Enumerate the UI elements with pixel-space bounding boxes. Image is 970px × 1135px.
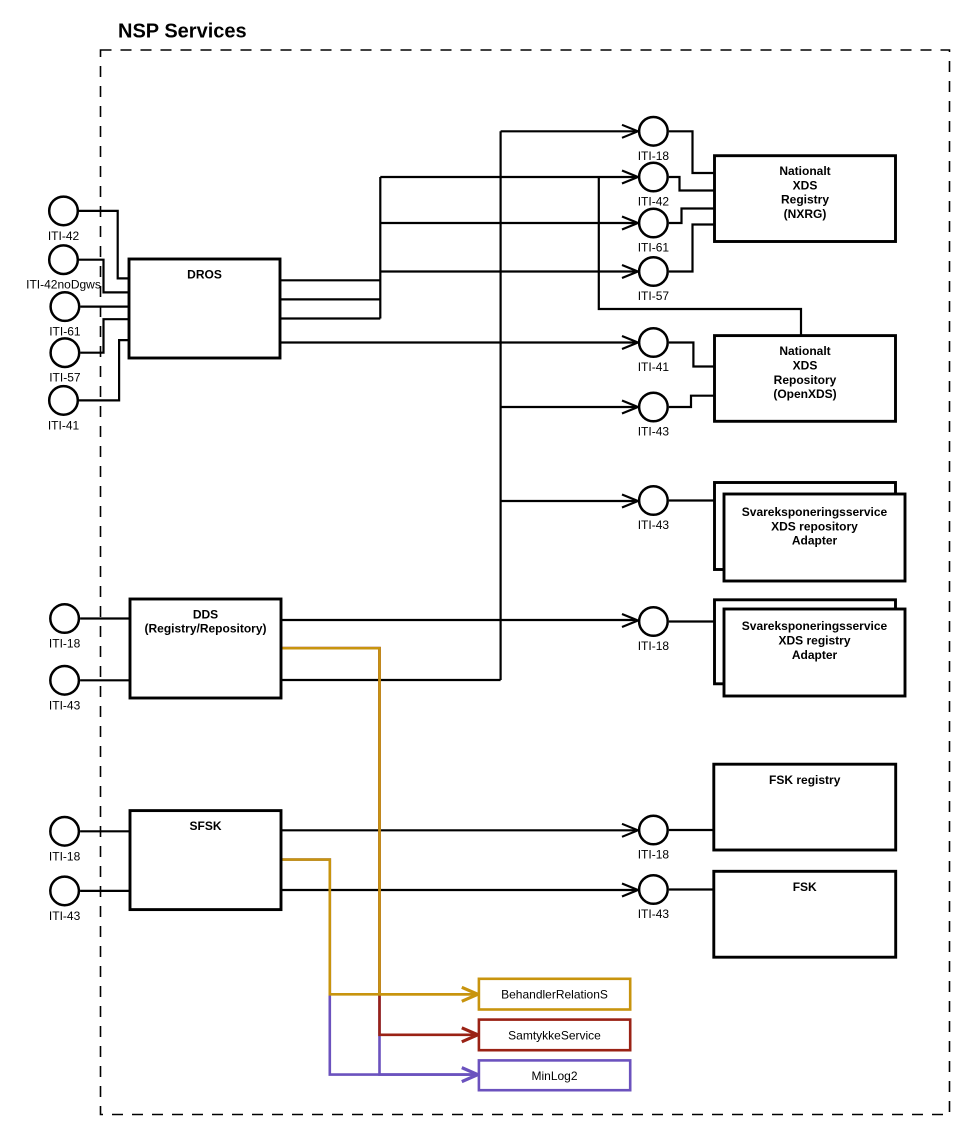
interface circle ITI-41 left <box>48 386 80 432</box>
svg-text:MinLog2: MinLog2 <box>531 1069 577 1083</box>
svg-text:ITI-57: ITI-57 <box>638 289 670 303</box>
arrow into ITI-18 fsk <box>622 824 638 837</box>
interface circle ITI-61 left <box>49 292 81 338</box>
arrow purple into MinLog2 <box>462 1068 478 1082</box>
svg-text:XDS repository: XDS repository <box>771 519 858 533</box>
wire ITI-41 to OpenXDS <box>669 343 715 367</box>
interface circle ITI-43 fsk <box>638 875 670 921</box>
wire bus to ITI-42 right <box>380 176 635 178</box>
wire bus to ITI-61 right <box>380 222 635 224</box>
svg-text:ITI-43: ITI-43 <box>49 909 81 923</box>
svg-text:XDS: XDS <box>793 358 818 372</box>
box BehandlerRelationS <box>479 979 630 1010</box>
arrow into ITI-18 top <box>622 125 638 138</box>
wire bus to ITI-57 right <box>380 270 635 272</box>
wire purple DDS to MinLog2 <box>280 648 477 1074</box>
interface circle ITI-57 left <box>49 338 81 384</box>
svg-text:FSK registry: FSK registry <box>769 773 841 787</box>
wire long vertical DDS bus <box>500 131 502 680</box>
interface circle ITI-43 dds left <box>49 666 81 712</box>
svg-text:Registry: Registry <box>781 193 829 207</box>
interface circle ITI-18 dds left <box>49 604 81 650</box>
svg-text:ITI-61: ITI-61 <box>638 241 670 255</box>
wire gold DDS to BehandlerRelationS <box>280 648 477 994</box>
svg-text:ITI-61: ITI-61 <box>49 325 81 339</box>
box Nationalt XDS Registry (NXRG) <box>715 156 896 242</box>
wire ITI-43 to OpenXDS <box>669 396 715 407</box>
svg-text:ITI-43: ITI-43 <box>638 518 670 532</box>
wire ITI-18 top to NXRG <box>669 131 715 173</box>
svg-text:Svareksponeringsservice: Svareksponeringsservice <box>742 505 888 519</box>
wire purple SFSK to MinLog2 <box>280 860 477 1075</box>
box Svareksponeringsservice XDS registry Adapter (stacked) <box>715 600 906 696</box>
wire ITI-42 left to DROS <box>79 211 129 279</box>
svg-text:ITI-41: ITI-41 <box>638 360 670 374</box>
arrow into ITI-43 fsk <box>622 884 638 897</box>
svg-text:XDS registry: XDS registry <box>778 633 850 647</box>
box Nationalt XDS Repository (OpenXDS) <box>715 336 896 422</box>
wire ITI-57 to NXRG <box>669 225 715 272</box>
wire gold SFSK to BehandlerRelationS <box>280 860 477 995</box>
wire ITI-57 left to DROS <box>80 319 129 353</box>
wire junction ITI-42 line down to OpenXDS top <box>599 177 801 336</box>
arrow into ITI-57 right <box>622 265 638 278</box>
arrow gold into BehandlerRelationS <box>462 987 478 1001</box>
svg-text:ITI-18: ITI-18 <box>49 637 81 651</box>
svg-text:Repository: Repository <box>774 373 837 387</box>
svg-text:FSK: FSK <box>793 880 817 894</box>
wire vertical bottom to DDS <box>281 679 501 681</box>
svg-text:DROS: DROS <box>187 268 222 282</box>
box FSK <box>714 871 896 957</box>
svg-text:Nationalt: Nationalt <box>779 164 830 178</box>
svg-text:SFSK: SFSK <box>189 819 221 833</box>
wire vertical to ITI-18 top <box>501 130 635 132</box>
wire DROS output 3 <box>280 317 380 319</box>
interface circle ITI-42 nxrg <box>638 163 670 209</box>
wire ITI-43 fsk to FSK <box>669 888 714 890</box>
box FSK registry <box>714 764 896 850</box>
arrow into ITI-18 svarekspo <box>622 614 638 627</box>
wire ITI-18 left to SFSK <box>80 830 130 832</box>
svg-text:SamtykkeService: SamtykkeService <box>508 1029 601 1043</box>
interface circle ITI-42noDgws left <box>26 245 101 291</box>
arrow into ITI-42 right <box>622 171 638 184</box>
wire bus vertical from DROS <box>379 177 381 319</box>
svg-text:BehandlerRelationS: BehandlerRelationS <box>501 988 608 1002</box>
wire vertical to ITI-43 svarekspo <box>501 500 635 502</box>
wire ITI-43 left to SFSK <box>80 890 130 892</box>
box DROS <box>129 259 280 358</box>
arrow red into SamtykkeService <box>462 1028 478 1042</box>
interface circle ITI-18 svarekspo reg <box>638 607 670 653</box>
wire ITI-43 left to DDS <box>80 679 130 681</box>
interface circle ITI-43 openxds <box>638 393 670 439</box>
svg-text:Svareksponeringsservice: Svareksponeringsservice <box>742 619 888 633</box>
wire DDS to ITI-18 svarekspo <box>281 619 635 621</box>
svg-text:ITI-43: ITI-43 <box>638 425 670 439</box>
svg-text:(NXRG): (NXRG) <box>784 207 827 221</box>
svg-text:ITI-18: ITI-18 <box>638 639 670 653</box>
svg-text:ITI-57: ITI-57 <box>49 371 81 385</box>
interface circle ITI-18 nxrg <box>638 117 670 163</box>
wire DROS output 1 <box>280 279 380 281</box>
wire ITI-42 to NXRG <box>669 177 715 191</box>
arrow into ITI-43 openxds <box>622 401 638 414</box>
interface circle ITI-42 left <box>48 197 80 243</box>
interface circle ITI-57 nxrg <box>638 257 670 303</box>
svg-text:ITI-42: ITI-42 <box>48 229 80 243</box>
wire ITI-43 to Svarekspo repository adapter <box>669 499 715 501</box>
svg-text:ITI-18: ITI-18 <box>638 848 670 862</box>
wire ITI-18 fsk to FSK registry <box>669 829 714 831</box>
arrow into ITI-43 svarekspo <box>622 495 638 508</box>
wire DROS output 2 <box>280 298 380 300</box>
interface circle ITI-43 svarekspo repo <box>638 486 670 532</box>
svg-text:Adapter: Adapter <box>792 534 838 548</box>
wire vertical to ITI-43 openxds <box>501 406 635 408</box>
interface circle ITI-41 openxds <box>638 328 670 374</box>
box Svareksponeringsservice XDS repository Adapter (stacked) <box>715 483 906 582</box>
svg-text:Nationalt: Nationalt <box>779 344 830 358</box>
wire ITI-42noDgws to DROS <box>79 260 129 293</box>
svg-text:ITI-42noDgws: ITI-42noDgws <box>26 278 101 292</box>
wire SFSK to ITI-43 fsk <box>281 889 635 891</box>
interface circle ITI-43 sfsk left <box>49 877 81 923</box>
svg-text:Adapter: Adapter <box>792 648 838 662</box>
wire ITI-18 left to DDS <box>80 617 130 619</box>
box SamtykkeService <box>479 1020 630 1051</box>
wire DROS to ITI-41 right <box>280 341 635 343</box>
svg-text:DDS: DDS <box>193 607 218 621</box>
interface circle ITI-18 sfsk left <box>49 817 81 863</box>
interface circle ITI-18 fsk registry <box>638 816 670 862</box>
box DDS (Registry/Repository) <box>130 599 281 698</box>
svg-text:ITI-42: ITI-42 <box>638 195 670 209</box>
wire ITI-41 left to DROS <box>79 340 129 400</box>
wire ITI-61 left to DROS <box>80 306 129 308</box>
svg-text:NSP Services: NSP Services <box>118 21 247 43</box>
svg-text:ITI-18: ITI-18 <box>49 849 81 863</box>
wire red DDS to SamtykkeService <box>280 648 477 1035</box>
box SFSK <box>130 811 281 910</box>
svg-text:ITI-43: ITI-43 <box>638 907 670 921</box>
svg-text:ITI-41: ITI-41 <box>48 418 80 432</box>
svg-text:ITI-43: ITI-43 <box>49 698 81 712</box>
arrow into ITI-41 right <box>622 336 638 349</box>
wire ITI-18 to Svarekspo registry adapter <box>669 620 715 622</box>
interface circle ITI-61 nxrg <box>638 209 670 255</box>
svg-text:XDS: XDS <box>793 178 818 192</box>
svg-text:(OpenXDS): (OpenXDS) <box>773 387 836 401</box>
box MinLog2 <box>479 1060 630 1090</box>
svg-text:ITI-18: ITI-18 <box>638 149 670 163</box>
svg-text:(Registry/Repository): (Registry/Repository) <box>144 622 266 636</box>
wire SFSK to ITI-18 fsk <box>281 829 635 831</box>
arrow into ITI-61 right <box>622 217 638 230</box>
wire ITI-61 to NXRG <box>669 209 715 224</box>
